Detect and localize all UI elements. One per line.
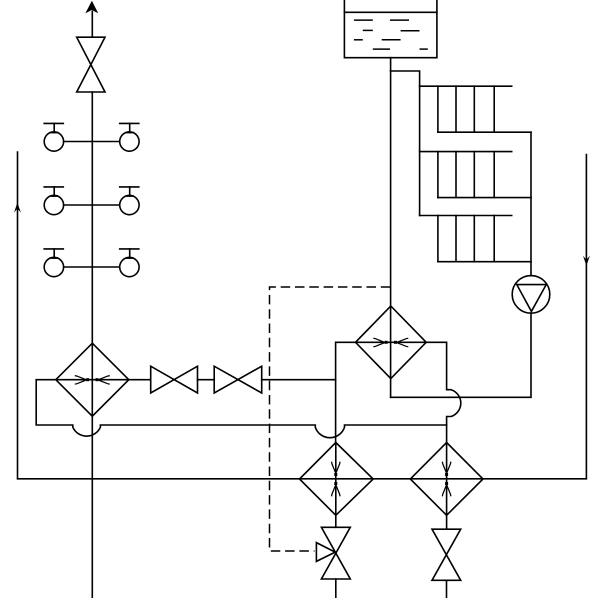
valve V3 (horizontal bowtie) — [214, 366, 262, 393]
wire from V3 to node at x=335.6 — [262, 379, 336, 381]
meter M1 diamond on riser — [56, 343, 129, 416]
wire left return riser — [18, 152, 587, 479]
heater H6 right circle row3 — [120, 249, 139, 277]
valve V5 (vertical bowtie) — [432, 529, 461, 580]
flow arrow down on right riser — [583, 256, 590, 266]
heater H3 left circle row2 — [44, 187, 63, 215]
wire M4 down to valve V5 — [446, 515, 448, 529]
heater H1 left circle row1 — [44, 123, 63, 151]
wire row2 branch pipe — [64, 204, 120, 206]
wire M2 bottom to pump return line — [391, 313, 531, 397]
wire row3 branch pipe — [64, 266, 120, 268]
meter M4 bottom-right diamond — [410, 443, 483, 516]
radiator R2 row — [420, 152, 531, 198]
wire pipe through M1 to valves — [56, 379, 151, 381]
wire vertical pipe x=335.6 from top diamond to bottom-left diamond — [336, 342, 356, 442]
meter M2 top diamond — [356, 306, 427, 379]
valve V2 (horizontal bowtie) — [151, 366, 198, 393]
radiator R3 row — [420, 216, 531, 262]
wire radiator return header down to pump — [530, 132, 532, 275]
wire between V2 and V3 — [198, 379, 215, 381]
wire row1 branch pipe — [64, 141, 120, 143]
wire below V4 — [335, 579, 337, 598]
wire M2 right vertex to vertical with hop over pump line — [426, 342, 461, 442]
valve V4 (vertical bowtie) — [321, 527, 350, 579]
wire bypass loop below M1 with pipe hops — [36, 380, 446, 438]
heater H4 right circle row2 — [120, 187, 139, 215]
valve V1 (vertical bowtie at top of riser) — [77, 37, 105, 92]
wire riser main vertical pipe — [91, 92, 93, 598]
wire below V5 — [446, 580, 448, 598]
tank T1 — [344, 0, 437, 58]
actuator arrow into valve V4 — [316, 543, 335, 562]
wire branch to radiator header — [391, 71, 420, 216]
flow arrow up (top of riser) — [85, 1, 98, 37]
wire tank feed pipe down to M2 — [390, 58, 392, 398]
flow arrow up on left riser — [14, 203, 21, 213]
heater H2 right circle row1 — [120, 123, 139, 151]
meter M3 bottom-left diamond — [300, 443, 374, 516]
radiator R1 row — [420, 86, 531, 132]
control line dashed from pipe to actuator — [270, 287, 391, 551]
pump P1 — [512, 276, 550, 314]
heater H5 left circle row3 — [44, 249, 63, 277]
wire M3 down to valve V4 — [335, 515, 337, 527]
